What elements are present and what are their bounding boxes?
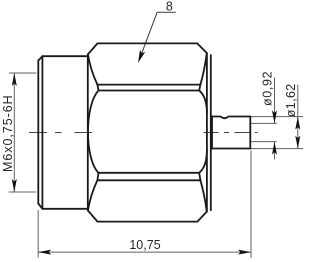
svg-text:M6x0,75-6H: M6x0,75-6H bbox=[1, 94, 15, 172]
svg-text:8: 8 bbox=[166, 0, 173, 13]
svg-text:ø0,92: ø0,92 bbox=[260, 71, 274, 106]
svg-text:ø1,62: ø1,62 bbox=[284, 83, 298, 117]
svg-text:10,75: 10,75 bbox=[129, 238, 160, 252]
